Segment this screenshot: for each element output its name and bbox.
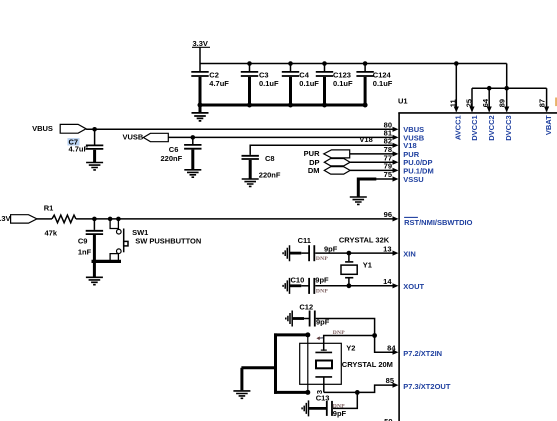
wire XT2IN node to crystal top	[324, 333, 377, 351]
svg-text:96: 96	[384, 210, 392, 219]
DNP pointer arrow	[316, 336, 323, 340]
wire 3.3V rail	[200, 63, 507, 65]
power flag 3.3V (R1 row, clipped)	[0, 214, 52, 223]
svg-text:75: 75	[384, 170, 392, 179]
wire ground bus (bold)	[198, 103, 368, 108]
pin 84	[387, 344, 442, 358]
IC U1 body	[398, 97, 557, 421]
svg-text:C10: C10	[291, 276, 305, 285]
svg-text:87: 87	[538, 99, 547, 107]
node DM: connector flag + wire to pin 79	[308, 166, 395, 175]
node DP: connector flag + wire to pin 77	[309, 158, 394, 167]
node PUR: connector flag + wire to pin 78	[304, 149, 395, 158]
wire AVCC1 supply	[454, 61, 459, 112]
svg-text:47k: 47k	[45, 228, 58, 237]
svg-text:Y1: Y1	[363, 260, 372, 269]
svg-text:R1: R1	[44, 204, 54, 213]
switch SW1 pushbutton	[110, 219, 201, 261]
svg-text:C12: C12	[299, 303, 313, 312]
wire DVCC2 supply	[487, 86, 492, 112]
capacitor C4 0.1uF	[282, 61, 320, 105]
capacitor C13 9pF	[309, 392, 357, 417]
svg-text:AVCC1: AVCC1	[453, 115, 462, 140]
svg-text:XOUT: XOUT	[403, 282, 424, 291]
svg-text:C11: C11	[298, 236, 311, 245]
capacitor C9 1nF	[78, 219, 103, 263]
pin 96	[384, 210, 473, 227]
svg-text:89: 89	[498, 99, 507, 107]
svg-text:VBAT: VBAT	[544, 115, 553, 135]
svg-text:VBUS: VBUS	[32, 124, 53, 133]
svg-text:220nF: 220nF	[259, 171, 281, 180]
node V18: wire to pin 82	[250, 135, 394, 155]
ground (C8)	[242, 179, 259, 186]
svg-text:SW PUSHBUTTON: SW PUSHBUTTON	[135, 236, 201, 245]
wire crystal bottom to pin 85	[324, 385, 395, 395]
svg-text:9pF: 9pF	[315, 276, 329, 285]
svg-text:4.7uF: 4.7uF	[69, 145, 89, 154]
svg-text:PUR: PUR	[304, 149, 320, 158]
svg-text:U1: U1	[398, 97, 408, 106]
ground (C7)	[86, 163, 103, 170]
ground (C12, rotated left)	[286, 311, 292, 327]
node VBUS: connector flag + wire to pin 80	[32, 124, 394, 133]
capacitor C123 0.1uF	[316, 61, 353, 105]
svg-text:64: 64	[481, 98, 490, 107]
svg-text:V18: V18	[359, 135, 372, 144]
ground (below bus)	[192, 105, 209, 121]
crystal Y1	[341, 253, 372, 286]
pin 14	[383, 277, 424, 291]
ground (C9/SW1)	[86, 277, 103, 284]
wire VSSU to ground (bold)	[358, 179, 394, 197]
capacitor C124 0.1uF	[356, 61, 392, 105]
pin 13	[383, 244, 416, 258]
ground (C11, rotated left)	[283, 245, 289, 261]
svg-text:11: 11	[449, 99, 458, 107]
svg-text:CRYSTAL 20M: CRYSTAL 20M	[342, 360, 393, 369]
svg-text:4.7uF: 4.7uF	[209, 79, 229, 88]
svg-text:3.3V: 3.3V	[193, 39, 208, 48]
wire crystal case ground bracket (bold)	[274, 332, 310, 395]
svg-text:C13: C13	[316, 394, 330, 403]
svg-text:DVCC3: DVCC3	[504, 115, 513, 140]
svg-text:VSSU: VSSU	[403, 175, 423, 184]
svg-text:DVCC2: DVCC2	[487, 115, 496, 140]
wire XOUT	[315, 283, 394, 288]
pin 80	[384, 121, 424, 135]
svg-text:0.1uF: 0.1uF	[259, 79, 279, 88]
pin 77	[384, 153, 433, 167]
pin 79	[384, 162, 434, 176]
capacitor C6 220nF	[161, 137, 202, 169]
svg-text:DNP: DNP	[316, 256, 328, 262]
pin 81	[384, 129, 425, 143]
svg-text:P7.2/XT2IN: P7.2/XT2IN	[403, 349, 442, 358]
svg-text:C6: C6	[169, 145, 179, 154]
wire SW1/C9 to ground (bold)	[92, 261, 122, 276]
pin 85	[386, 376, 451, 391]
wire R1 to pin 96	[76, 217, 395, 222]
capacitor C7 4.7uF (selected)	[68, 129, 104, 162]
svg-text:VUSB: VUSB	[123, 133, 144, 142]
svg-text:0.1uF: 0.1uF	[373, 79, 393, 88]
svg-text:9pF: 9pF	[324, 244, 338, 253]
pin 82	[384, 137, 417, 151]
ground (VSSU)	[350, 197, 367, 204]
wire bracket to ground (bold)	[241, 368, 275, 391]
svg-text:25: 25	[464, 99, 473, 107]
svg-text:RST/NMI/SBWTDIO: RST/NMI/SBWTDIO	[404, 218, 472, 227]
svg-text:59: 59	[384, 417, 392, 421]
svg-text:C8: C8	[265, 154, 275, 163]
svg-text:C9: C9	[78, 237, 88, 246]
ground (C6)	[184, 170, 201, 177]
svg-text:DVCC1: DVCC1	[470, 115, 479, 140]
wire DVCC1 supply	[469, 88, 474, 112]
svg-text:3.3V: 3.3V	[0, 214, 11, 223]
node VUSB: connector flag + wire to pin 81	[123, 133, 395, 142]
svg-text:0.1uF: 0.1uF	[299, 79, 319, 88]
crystal Y2 (CRYSTAL 20M)	[300, 335, 393, 394]
svg-text:84: 84	[387, 344, 396, 353]
ground (Y2 case)	[233, 391, 250, 398]
capacitor C2 4.7uF	[191, 64, 229, 106]
wire VBAT supply	[544, 88, 549, 112]
wire XT2IN to pin 84	[375, 336, 395, 353]
svg-text:Y2: Y2	[346, 343, 355, 352]
ground (C10, rotated left)	[283, 278, 289, 294]
resistor R1 47k	[44, 204, 76, 238]
capacitor C8 220nF	[242, 154, 281, 180]
capacitor C11 9pF	[290, 236, 338, 262]
svg-text:13: 13	[383, 244, 391, 253]
wire DVCC rail 2	[472, 87, 547, 89]
edge artifact (right margin)	[555, 98, 557, 107]
svg-text:0.1uF: 0.1uF	[333, 79, 353, 88]
ground (C13, rotated left)	[302, 400, 308, 416]
svg-text:9pF: 9pF	[333, 409, 347, 418]
pin 78	[384, 145, 420, 159]
svg-text:1nF: 1nF	[78, 247, 92, 256]
capacitor C3 0.1uF	[241, 61, 279, 105]
svg-text:XIN: XIN	[403, 250, 416, 259]
svg-text:220nF: 220nF	[161, 154, 183, 163]
svg-text:14: 14	[383, 277, 392, 286]
svg-text:85: 85	[386, 376, 394, 385]
power flag 3.3V top	[192, 39, 210, 64]
pin 75	[384, 170, 424, 184]
wire DVCC3 supply drop	[504, 64, 509, 113]
svg-text:DNP: DNP	[316, 289, 328, 295]
capacitor C12 9pF	[293, 303, 330, 327]
wire XIN	[315, 251, 394, 256]
svg-text:CRYSTAL 32K: CRYSTAL 32K	[339, 236, 390, 245]
capacitor C10 9pF	[290, 276, 329, 295]
svg-text:P7.3/XT2OUT: P7.3/XT2OUT	[403, 382, 451, 391]
wire C12 to XT2IN node	[316, 319, 375, 334]
svg-text:DM: DM	[308, 166, 320, 175]
